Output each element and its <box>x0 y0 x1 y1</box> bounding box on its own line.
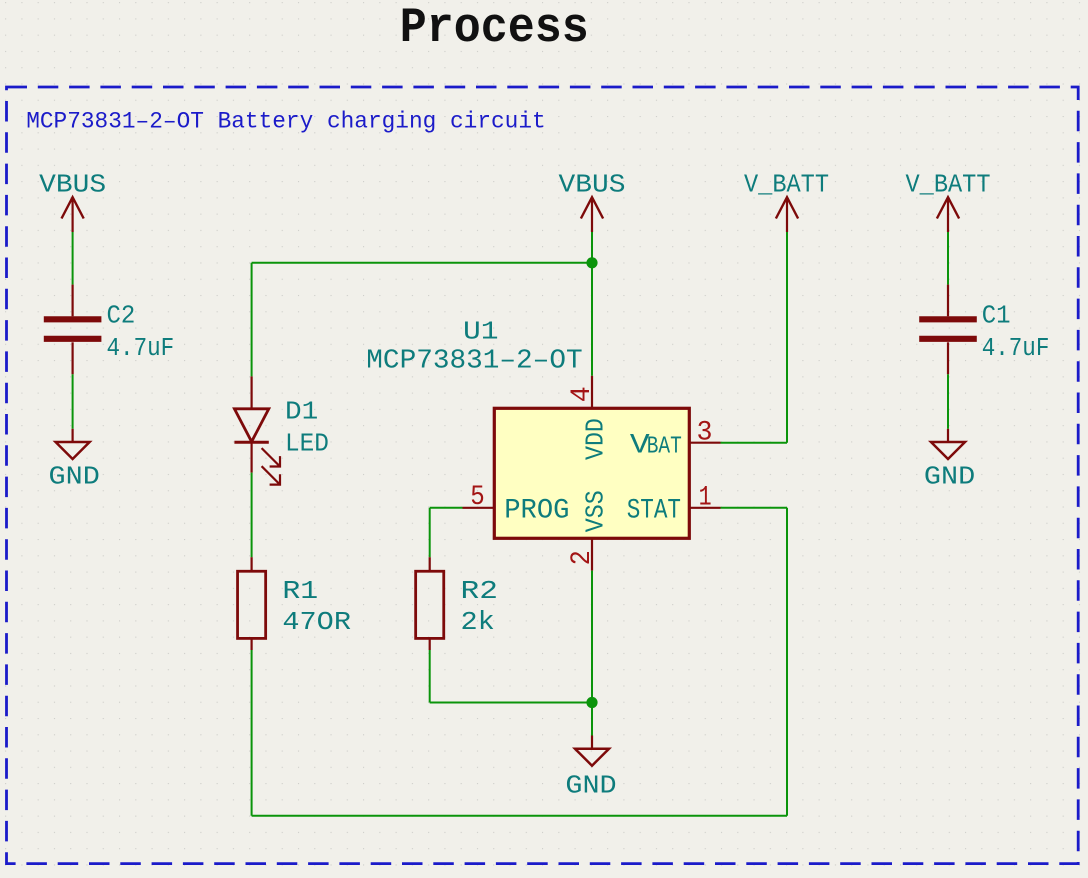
svg-text:1: 1 <box>699 483 712 514</box>
svg-text:GND: GND <box>924 462 975 491</box>
IC U1 MCP73831-2-OT body <box>494 408 689 538</box>
svg-text:VSS: VSS <box>581 490 611 532</box>
wire VBUS horizontal to D1 <box>252 262 592 264</box>
wire R2 to GND node <box>429 650 431 703</box>
wire U1 pin2 to GND <box>591 571 593 703</box>
svg-text:GND: GND <box>565 772 616 801</box>
wire U1 pin1 to loop <box>721 507 788 509</box>
svg-text:Process: Process <box>400 0 589 56</box>
svg-text:4: 4 <box>567 386 598 402</box>
svg-text:PROG: PROG <box>504 496 569 527</box>
svg-text:4.7uF: 4.7uF <box>982 334 1050 363</box>
wire C1-GND right <box>947 374 949 429</box>
capacitor C1 <box>947 285 949 317</box>
svg-text:MCP73831–2–OT: MCP73831–2–OT <box>366 346 582 376</box>
pin 5 PROG stub <box>463 507 495 509</box>
wire bottom horizontal <box>252 815 787 817</box>
pin 3 VBAT stub <box>689 442 720 444</box>
svg-text:BAT: BAT <box>647 434 682 461</box>
svg-text:R1: R1 <box>282 577 318 606</box>
svg-text:4.7uF: 4.7uF <box>107 334 175 363</box>
svg-text:2: 2 <box>567 550 598 565</box>
svg-text:U1: U1 <box>463 317 499 346</box>
wire right loop vertical <box>786 508 788 816</box>
junction GND node <box>586 697 597 708</box>
svg-text:STAT: STAT <box>627 496 681 527</box>
svg-text:VDD: VDD <box>581 418 611 460</box>
svg-text:R2: R2 <box>461 577 498 606</box>
ground symbol GND right <box>947 429 949 442</box>
power symbol VBUS left <box>71 199 73 232</box>
svg-text:C2: C2 <box>107 301 136 330</box>
pin 2 VSS stub <box>591 538 593 570</box>
svg-text:V_BATT: V_BATT <box>906 170 991 199</box>
svg-text:V_BATT: V_BATT <box>744 170 829 199</box>
svg-text:2k: 2k <box>461 608 495 637</box>
wire PROG to R2 <box>430 507 463 509</box>
wire U1 pin3 to V_BATT <box>721 442 788 444</box>
svg-text:5: 5 <box>470 482 485 513</box>
diode D1 LED <box>251 376 253 408</box>
svg-text:MCP73831–2–OT Battery charging: MCP73831–2–OT Battery charging circuit <box>26 108 546 134</box>
wire C2-GND left <box>72 374 74 429</box>
svg-text:VBUS: VBUS <box>39 170 106 199</box>
wire D1 anode from VBUS <box>251 263 253 377</box>
junction VBUS node <box>586 257 597 268</box>
wire V_BATT-C1 <box>947 232 949 285</box>
svg-text:D1: D1 <box>285 397 318 426</box>
wire R1 to bottom loop <box>251 650 253 816</box>
svg-text:C1: C1 <box>982 301 1011 330</box>
wire VBUS-C2 left <box>72 232 74 285</box>
resistor R2 <box>429 557 431 571</box>
ground symbol GND center <box>591 736 593 749</box>
wire GND node down <box>591 703 593 736</box>
capacitor C2 <box>71 285 73 317</box>
svg-text:LED: LED <box>285 430 329 459</box>
wire VBUS to U1 pin 4 <box>591 263 593 376</box>
svg-text:3: 3 <box>697 418 713 449</box>
svg-text:VBUS: VBUS <box>559 170 626 199</box>
resistor R1 <box>251 557 253 571</box>
wire VBUS center vertical <box>591 232 593 263</box>
svg-text:47OR: 47OR <box>282 608 351 637</box>
svg-text:GND: GND <box>49 462 100 491</box>
ground symbol GND left <box>71 429 73 442</box>
power symbol V_BATT mid <box>786 199 788 232</box>
pin 1 STAT stub <box>689 507 720 509</box>
pin 4 VDD stub <box>591 376 593 409</box>
power symbol VBUS center <box>591 199 593 232</box>
power symbol V_BATT right <box>947 199 949 232</box>
wire D1-R1 <box>251 473 253 558</box>
